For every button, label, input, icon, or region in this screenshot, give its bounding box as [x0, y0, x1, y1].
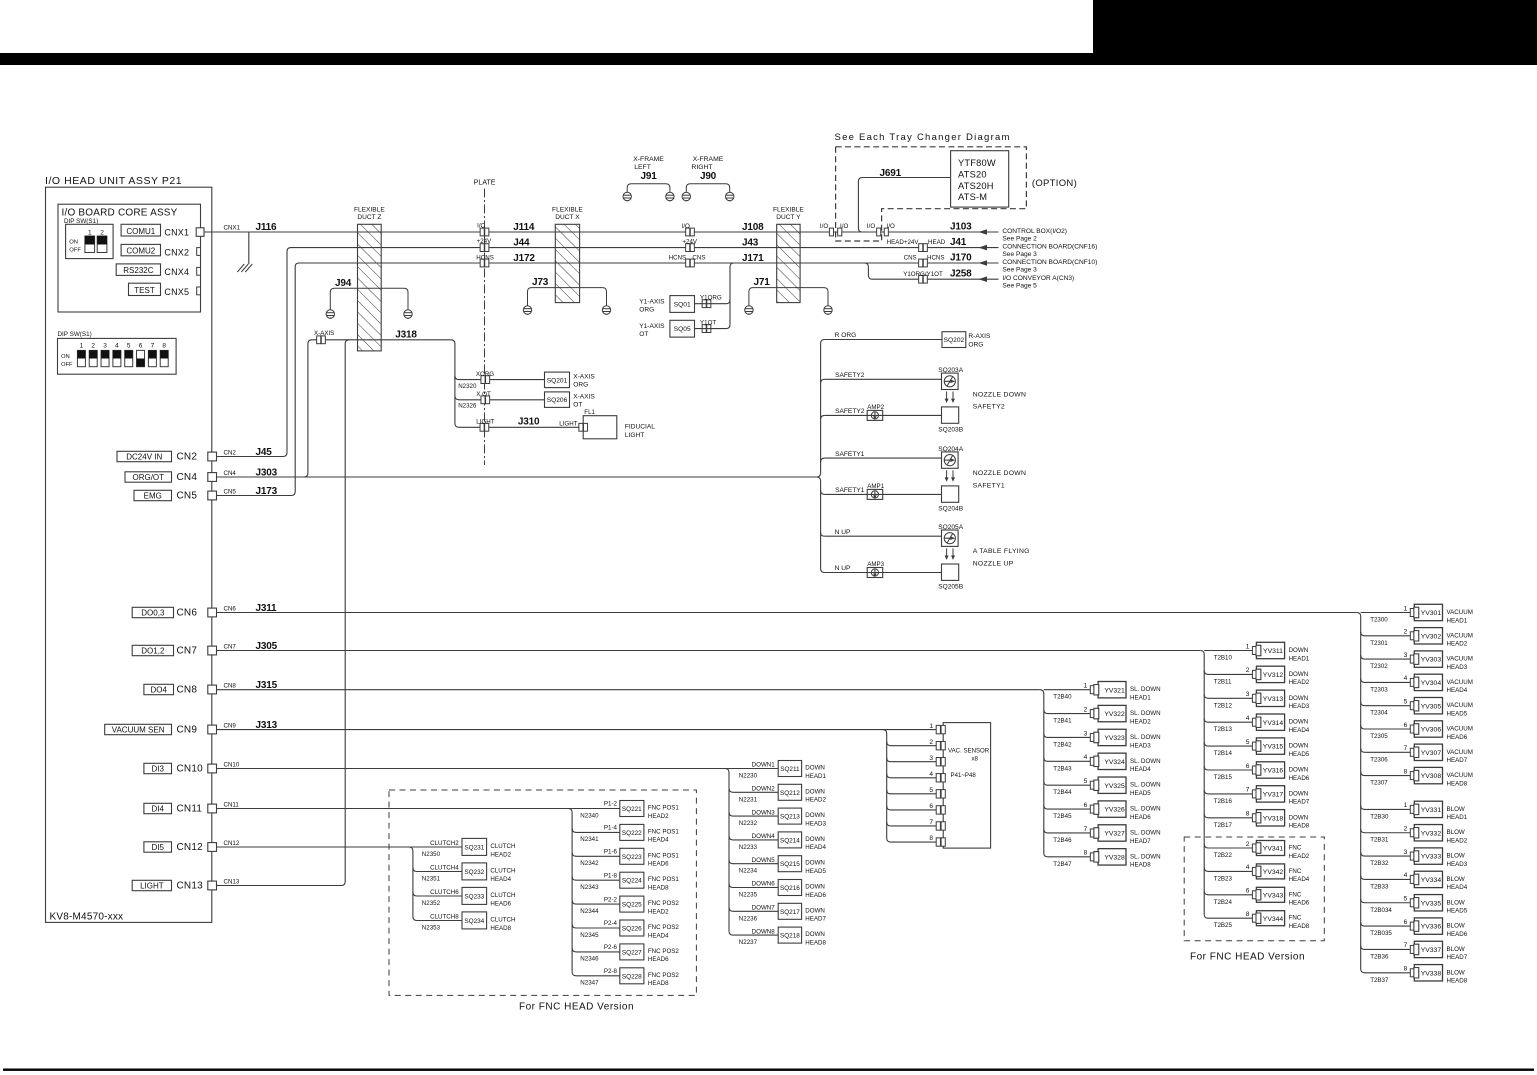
sensor SQ201 X-AXIS ORG [545, 372, 570, 388]
svg-text:YV308: YV308 [1421, 773, 1442, 780]
ground stub from I/O bus [248, 232, 250, 264]
svg-text:4: 4 [1246, 715, 1250, 722]
svg-text:VACUUM: VACUUM [1447, 609, 1473, 616]
svg-text:HEAD5: HEAD5 [805, 868, 826, 875]
svg-text:DOWN: DOWN [805, 765, 825, 772]
DOWN head sensors group [725, 769, 729, 932]
svg-text:SQ216: SQ216 [780, 885, 800, 892]
svg-text:2: 2 [1246, 841, 1250, 848]
valve YV335 BLOW HEAD5 [1361, 899, 1411, 903]
wire LIGHT J310 row [459, 426, 583, 428]
svg-text:DOWN: DOWN [805, 860, 825, 867]
svg-text:4: 4 [115, 342, 119, 349]
svg-text:FLEXIBLE: FLEXIBLE [552, 206, 583, 213]
valve YV334 BLOW HEAD4 [1361, 875, 1411, 879]
svg-text:T2302: T2302 [1370, 663, 1388, 670]
svg-text:SL. DOWN: SL. DOWN [1130, 853, 1161, 860]
svg-text:Y1ORG/Y1OT: Y1ORG/Y1OT [903, 271, 943, 278]
svg-text:SQ203B: SQ203B [938, 426, 964, 433]
svg-text:SQ01: SQ01 [674, 302, 691, 309]
svg-text:DOWN: DOWN [1289, 743, 1309, 750]
svg-text:N UP: N UP [835, 529, 851, 536]
svg-text:HEAD2: HEAD2 [1289, 853, 1310, 860]
branch to CN13 LIGHT riser [217, 340, 350, 886]
svg-text:J116: J116 [256, 222, 278, 233]
svg-text:HEAD3: HEAD3 [805, 820, 826, 827]
ground arc J94 [330, 288, 408, 310]
svg-text:HEAD5: HEAD5 [1447, 711, 1468, 718]
valve YV332 BLOW HEAD2 [1361, 829, 1411, 833]
svg-text:HEAD5: HEAD5 [1447, 908, 1468, 915]
svg-text:N UP: N UP [835, 565, 851, 572]
connector CN8 row [144, 684, 174, 694]
svg-text:CN4: CN4 [177, 472, 198, 483]
wire DI3 CN10 to down sensors [217, 768, 730, 770]
svg-text:YV314: YV314 [1263, 720, 1284, 727]
svg-text:YV313: YV313 [1263, 696, 1284, 703]
valve YV303 VACUUM HEAD3 [1361, 655, 1411, 659]
svg-text:T2B16: T2B16 [1214, 798, 1233, 805]
svg-text:CN10: CN10 [177, 764, 204, 775]
svg-text:HEAD5: HEAD5 [1289, 751, 1310, 758]
svg-text:2: 2 [1246, 667, 1250, 674]
svg-text:For FNC HEAD Version: For FNC HEAD Version [519, 1002, 634, 1013]
svg-text:DOWN4: DOWN4 [752, 833, 776, 840]
svg-text:I/O: I/O [887, 223, 895, 230]
svg-text:SQ226: SQ226 [622, 926, 642, 933]
arrow J41 [979, 245, 988, 251]
sensor SQ212 DOWN HEAD2 [729, 788, 778, 792]
svg-text:YV301: YV301 [1421, 610, 1442, 617]
svg-text:4: 4 [929, 771, 933, 778]
svg-text:YV304: YV304 [1421, 680, 1442, 687]
svg-text:OT: OT [639, 331, 648, 338]
double down arrows [946, 548, 948, 557]
svg-text:I/O: I/O [840, 223, 848, 230]
svg-text:AMP1: AMP1 [867, 483, 884, 490]
svg-text:YV334: YV334 [1421, 877, 1442, 884]
svg-text:SQ228: SQ228 [622, 973, 642, 980]
svg-text:CNS: CNS [692, 255, 705, 262]
COMU2 box / CNX2 [121, 244, 160, 255]
svg-text:CN8: CN8 [177, 685, 198, 696]
svg-text:VACUUM: VACUUM [1447, 656, 1473, 663]
svg-text:XORG: XORG [476, 371, 494, 378]
svg-text:BLOW: BLOW [1447, 969, 1465, 976]
connector J258 Y1ORG/Y1OT [919, 275, 928, 283]
svg-text:X-AXIS: X-AXIS [573, 373, 595, 380]
svg-text:HEAD2: HEAD2 [1130, 718, 1151, 725]
svg-text:HEAD3: HEAD3 [1289, 703, 1310, 710]
svg-text:T2B14: T2B14 [1214, 750, 1233, 757]
svg-text:HEAD1: HEAD1 [805, 773, 826, 780]
svg-text:SQ222: SQ222 [622, 830, 642, 837]
TEST box / CNX5 [129, 283, 161, 295]
wire I/O bus CNX1-J116 to J103 [204, 231, 999, 233]
valve YV323 SL. DOWN HEAD3 [1044, 733, 1091, 737]
svg-text:N2345: N2345 [580, 932, 599, 939]
svg-text:N2340: N2340 [580, 812, 599, 819]
svg-text:AMP3: AMP3 [867, 561, 884, 568]
wire J313 VACUUM SEN to vac sensor [217, 729, 937, 731]
svg-text:HEAD6: HEAD6 [1289, 900, 1310, 907]
wire J691 [858, 178, 950, 233]
svg-text:CONNECTION BOARD(CNF10): CONNECTION BOARD(CNF10) [1002, 259, 1097, 266]
svg-text:ORG/OT: ORG/OT [132, 473, 164, 482]
svg-text:AMP2: AMP2 [867, 404, 884, 411]
valve YV326 SL. DOWN HEAD6 [1044, 805, 1091, 809]
wire Y1 riser to HCNS line [695, 263, 734, 329]
sensor SQ223 FNC POS1 HEAD6 [572, 852, 620, 856]
svg-text:SQ201: SQ201 [547, 377, 568, 384]
svg-text:HEAD6: HEAD6 [1130, 814, 1151, 821]
svg-text:7: 7 [1246, 787, 1250, 794]
svg-text:CN12: CN12 [177, 842, 204, 853]
svg-text:HEAD8: HEAD8 [1130, 862, 1151, 869]
svg-text:(OPTION): (OPTION) [1032, 178, 1077, 189]
safety bus vertical [817, 344, 821, 569]
svg-text:CN7: CN7 [224, 644, 237, 651]
svg-text:X-FRAME: X-FRAME [633, 156, 664, 163]
wire J303 to safety bus [217, 476, 817, 478]
svg-text:VACUUM: VACUUM [1447, 679, 1473, 686]
svg-text:T2B12: T2B12 [1214, 702, 1233, 709]
vac sensor pin 6 [887, 806, 937, 810]
svg-text:7: 7 [1404, 745, 1408, 752]
valve YV311 DOWN HEAD1 [1204, 650, 1252, 652]
svg-text:CN6: CN6 [177, 608, 198, 619]
svg-text:5: 5 [1084, 778, 1088, 785]
svg-text:YV307: YV307 [1421, 750, 1442, 757]
svg-text:LEFT: LEFT [634, 164, 651, 171]
svg-text:x8: x8 [972, 755, 979, 762]
svg-text:RIGHT: RIGHT [691, 164, 712, 171]
CLUTCH sensors group [409, 847, 413, 917]
svg-text:FNC POS2: FNC POS2 [648, 924, 680, 931]
svg-text:HEAD1: HEAD1 [1289, 655, 1310, 662]
vac sensor pin 3 [887, 758, 937, 762]
svg-text:YV336: YV336 [1421, 924, 1442, 931]
svg-text:2: 2 [1404, 826, 1408, 833]
svg-text:HEAD6: HEAD6 [490, 900, 511, 907]
svg-text:YV306: YV306 [1421, 727, 1442, 734]
svg-text:YV342: YV342 [1263, 869, 1284, 876]
svg-text:HEAD4: HEAD4 [1447, 884, 1468, 891]
double down arrows [946, 392, 948, 401]
svg-text:CN7: CN7 [177, 646, 198, 657]
wire +24V bus from CN2 riser [217, 248, 999, 457]
svg-text:HEAD4: HEAD4 [1289, 727, 1310, 734]
sensor SQ205A (photo switch) [942, 530, 959, 546]
svg-text:N2234: N2234 [739, 868, 758, 875]
valve YV315 DOWN HEAD5 [1204, 742, 1252, 746]
svg-text:HEAD6: HEAD6 [805, 892, 826, 899]
DIP switch S1 (2 position) [66, 224, 114, 258]
svg-text:1: 1 [1404, 605, 1408, 612]
svg-text:DO1,2: DO1,2 [141, 646, 165, 655]
svg-text:CN9: CN9 [224, 723, 237, 730]
svg-text:See Page 2: See Page 2 [1002, 235, 1037, 242]
svg-text:HEAD2: HEAD2 [648, 813, 669, 820]
svg-text:Y1-AXIS: Y1-AXIS [639, 299, 665, 306]
sensor SQ206 X-AXIS OT [545, 392, 570, 408]
RS232C box / CNX4 [116, 264, 160, 276]
sensor SQ216 DOWN HEAD6 [729, 884, 778, 888]
svg-text:J91: J91 [641, 171, 658, 182]
svg-text:6: 6 [1246, 763, 1250, 770]
svg-text:FNC: FNC [1289, 868, 1302, 875]
amplifier AMP3 [867, 568, 883, 578]
svg-text:N2232: N2232 [739, 820, 758, 827]
ground arc J90 X-FRAME RIGHT [686, 184, 729, 193]
svg-text:2: 2 [91, 342, 95, 349]
svg-text:SQ231: SQ231 [464, 845, 484, 852]
valve YV336 BLOW HEAD6 [1361, 922, 1411, 926]
svg-text:HEAD8: HEAD8 [805, 939, 826, 946]
svg-text:HEAD8: HEAD8 [648, 885, 669, 892]
svg-text:J43: J43 [742, 238, 759, 249]
svg-text:8: 8 [1404, 966, 1408, 973]
wire J305 DO1,2 to down valves [217, 650, 1201, 652]
svg-text:CNX4: CNX4 [164, 267, 189, 277]
svg-text:HEAD6: HEAD6 [648, 956, 669, 963]
svg-text:4: 4 [1404, 872, 1408, 879]
svg-text:HEAD2: HEAD2 [490, 851, 511, 858]
svg-text:7: 7 [929, 819, 933, 826]
wire N UP upper row [821, 532, 825, 536]
plate boundary connectors J114/J44/J172 [480, 228, 489, 236]
svg-text:HEAD2: HEAD2 [648, 908, 669, 915]
svg-text:Y1-AXIS: Y1-AXIS [639, 323, 665, 330]
connector J41 HEAD+24V [919, 244, 928, 252]
svg-text:8: 8 [1246, 911, 1250, 918]
svg-text:BLOW: BLOW [1447, 876, 1465, 883]
svg-text:T2B45: T2B45 [1053, 813, 1072, 820]
svg-text:HEAD4: HEAD4 [648, 837, 669, 844]
valve YV344 FNC HEAD8 [1204, 914, 1252, 918]
connector CN12 row [144, 842, 172, 852]
svg-text:2: 2 [1404, 629, 1408, 636]
svg-text:T2B17: T2B17 [1214, 822, 1233, 829]
svg-text:T2B41: T2B41 [1053, 718, 1072, 725]
svg-text:DOWN: DOWN [1289, 814, 1309, 821]
svg-text:CONTROL BOX(I/O2): CONTROL BOX(I/O2) [1002, 228, 1067, 235]
svg-text:ATS-M: ATS-M [958, 192, 987, 202]
vac sensor pin 2 [887, 742, 937, 746]
svg-text:N2343: N2343 [580, 884, 599, 891]
svg-text:SQ212: SQ212 [780, 790, 800, 797]
svg-text:DOWN3: DOWN3 [752, 809, 776, 816]
svg-text:5: 5 [1404, 896, 1408, 903]
svg-text:FNC: FNC [1289, 915, 1302, 922]
svg-text:ON: ON [61, 354, 70, 360]
svg-text:CN13: CN13 [177, 881, 204, 892]
svg-text:SQ204B: SQ204B [938, 505, 964, 512]
svg-text:LIGHT: LIGHT [476, 418, 494, 425]
wire Y1ORG/Y1OT hook to J258 [864, 263, 998, 279]
valve YV316 DOWN HEAD6 [1204, 766, 1252, 770]
svg-text:DIP SW(S1): DIP SW(S1) [58, 331, 92, 338]
svg-text:SQ232: SQ232 [464, 869, 484, 876]
valve YV327 SL. DOWN HEAD7 [1044, 829, 1091, 833]
svg-text:HEAD4: HEAD4 [1289, 876, 1310, 883]
connector X-AXIS [317, 336, 326, 344]
svg-text:FNC POS2: FNC POS2 [648, 900, 680, 907]
svg-text:T2B24: T2B24 [1214, 899, 1233, 906]
svg-text:RS232C: RS232C [123, 266, 153, 275]
svg-text:3: 3 [1404, 652, 1408, 659]
svg-text:DOWN8: DOWN8 [752, 928, 776, 935]
svg-text:R-AXIS: R-AXIS [968, 333, 991, 340]
svg-text:ORG: ORG [639, 307, 654, 314]
valve YV338 BLOW HEAD8 [1361, 969, 1411, 973]
svg-text:5: 5 [1404, 699, 1408, 706]
svg-text:HEAD8: HEAD8 [1447, 978, 1468, 985]
valve YV308 VACUUM HEAD8 [1361, 772, 1411, 776]
svg-text:N2341: N2341 [580, 836, 599, 843]
svg-text:SAFETY2: SAFETY2 [835, 408, 865, 415]
svg-text:2: 2 [1084, 706, 1088, 713]
wire SAFETY1 upper row [821, 458, 825, 462]
svg-text:YV335: YV335 [1421, 900, 1442, 907]
svg-text:VACUUM: VACUUM [1447, 726, 1473, 733]
svg-text:OFF: OFF [69, 248, 81, 254]
svg-text:HEAD3: HEAD3 [1447, 861, 1468, 868]
svg-text:8: 8 [929, 835, 933, 842]
svg-text:T2300: T2300 [1370, 617, 1388, 624]
svg-text:J108: J108 [742, 222, 764, 233]
down valve bus [1200, 651, 1204, 915]
bottom border rule [3, 1069, 1534, 1071]
svg-text:DOWN: DOWN [1289, 647, 1309, 654]
svg-text:HEAD8: HEAD8 [1289, 923, 1310, 930]
svg-text:I/O: I/O [682, 223, 690, 230]
svg-text:DI5: DI5 [151, 843, 164, 852]
svg-text:HCNS: HCNS [669, 255, 687, 262]
svg-text:HEAD8: HEAD8 [648, 980, 669, 987]
sensor SQ222 FNC POS1 HEAD4 [572, 828, 620, 832]
svg-text:YV315: YV315 [1263, 744, 1284, 751]
svg-text:SAFETY2: SAFETY2 [973, 404, 1005, 411]
svg-text:YV333: YV333 [1421, 854, 1442, 861]
svg-text:T2B33: T2B33 [1370, 883, 1389, 890]
svg-text:OFF: OFF [61, 362, 73, 368]
svg-text:P41~P48: P41~P48 [951, 772, 977, 779]
connector CN4 row [125, 472, 172, 482]
svg-text:HEAD: HEAD [928, 239, 946, 246]
arrow J258 [979, 276, 988, 282]
svg-text:T2B10: T2B10 [1214, 655, 1233, 662]
svg-text:SAFETY1: SAFETY1 [835, 487, 865, 494]
svg-text:SQ215: SQ215 [780, 861, 800, 868]
svg-text:SQ227: SQ227 [622, 949, 642, 956]
svg-text:T2303: T2303 [1370, 686, 1388, 693]
svg-text:CN5: CN5 [177, 491, 198, 502]
svg-text:CN2: CN2 [224, 450, 237, 457]
svg-text:CONNECTION BOARD(CNF16): CONNECTION BOARD(CNF16) [1002, 243, 1097, 250]
svg-text:J114: J114 [513, 222, 535, 233]
valve YV331 BLOW HEAD1 [1361, 805, 1411, 809]
sensor SQ226 FNC POS2 HEAD4 [572, 924, 620, 928]
svg-text:1: 1 [929, 723, 933, 730]
svg-text:N2342: N2342 [580, 860, 599, 867]
svg-text:YV312: YV312 [1263, 672, 1284, 679]
sensor SQ232 CLUTCH HEAD4 [413, 868, 462, 872]
svg-text:EMG: EMG [144, 491, 162, 500]
svg-text:T2B36: T2B36 [1370, 953, 1389, 960]
wire J315 DO4 to sl.down valves [217, 689, 1040, 691]
svg-text:HEAD2: HEAD2 [1289, 679, 1310, 686]
svg-text:T2B46: T2B46 [1053, 837, 1072, 844]
svg-text:DOWN2: DOWN2 [752, 786, 776, 793]
svg-text:VACUUM SEN: VACUUM SEN [112, 725, 165, 734]
vac sensor pin 5 [887, 790, 937, 794]
svg-text:P1-6: P1-6 [604, 849, 618, 856]
svg-text:DOWN: DOWN [805, 788, 825, 795]
svg-text:+24V: +24V [682, 238, 697, 245]
COMU1 box / CNX1 [121, 224, 160, 236]
svg-text:J310: J310 [518, 417, 540, 428]
svg-text:I/O: I/O [867, 223, 875, 230]
svg-text:N2353: N2353 [422, 924, 441, 931]
valve YV325 SL. DOWN HEAD5 [1044, 781, 1091, 785]
svg-text:4: 4 [1084, 754, 1088, 761]
fiducial light FL1 box [583, 416, 617, 439]
svg-text:J94: J94 [335, 278, 352, 289]
svg-text:HCNS: HCNS [927, 255, 945, 262]
svg-text:I/O CONVEYOR A(CN3): I/O CONVEYOR A(CN3) [1002, 275, 1074, 282]
svg-text:6: 6 [929, 803, 933, 810]
svg-text:DI3: DI3 [151, 764, 164, 773]
svg-text:SL. DOWN: SL. DOWN [1130, 734, 1161, 741]
svg-text:J73: J73 [532, 277, 549, 288]
svg-text:J41: J41 [950, 237, 967, 248]
svg-text:HEAD6: HEAD6 [1447, 734, 1468, 741]
tray changer option box YTF80W [951, 151, 1009, 207]
svg-text:ORG: ORG [968, 341, 983, 348]
svg-text:VAC. SENSOR: VAC. SENSOR [948, 747, 990, 754]
svg-text:ON: ON [69, 239, 78, 245]
svg-text:CN9: CN9 [177, 725, 198, 736]
sensor SQ203A (photo switch) [942, 373, 959, 389]
svg-text:T2B13: T2B13 [1214, 726, 1233, 733]
sensor SQ221 FNC POS1 HEAD2 [572, 808, 620, 810]
svg-text:CN11: CN11 [177, 804, 203, 815]
svg-text:N2230: N2230 [739, 773, 758, 780]
svg-text:ATS20H: ATS20H [958, 181, 994, 191]
svg-text:DUCT Z: DUCT Z [357, 214, 381, 221]
svg-text:SAFETY2: SAFETY2 [835, 372, 865, 379]
svg-text:HEAD7: HEAD7 [805, 916, 826, 923]
svg-text:DOWN1: DOWN1 [752, 762, 776, 769]
connector CN11 row [144, 803, 172, 813]
svg-text:P2-8: P2-8 [604, 968, 618, 975]
svg-text:DI4: DI4 [151, 804, 164, 813]
valve YV342 FNC HEAD4 [1204, 867, 1252, 871]
connector CN6 row [132, 607, 173, 617]
svg-text:T2B44: T2B44 [1053, 789, 1072, 796]
svg-text:T2B11: T2B11 [1214, 678, 1232, 685]
svg-text:3: 3 [1404, 849, 1408, 856]
svg-text:DOWN7: DOWN7 [752, 905, 776, 912]
wire R ORG row [821, 340, 825, 344]
svg-text:NOZZLE UP: NOZZLE UP [973, 561, 1014, 568]
svg-text:T2B40: T2B40 [1053, 694, 1072, 701]
svg-text:8: 8 [1404, 768, 1408, 775]
svg-text:See Page 5: See Page 5 [1002, 283, 1037, 290]
svg-text:DOWN6: DOWN6 [752, 881, 776, 888]
svg-text:DOWN: DOWN [805, 931, 825, 938]
